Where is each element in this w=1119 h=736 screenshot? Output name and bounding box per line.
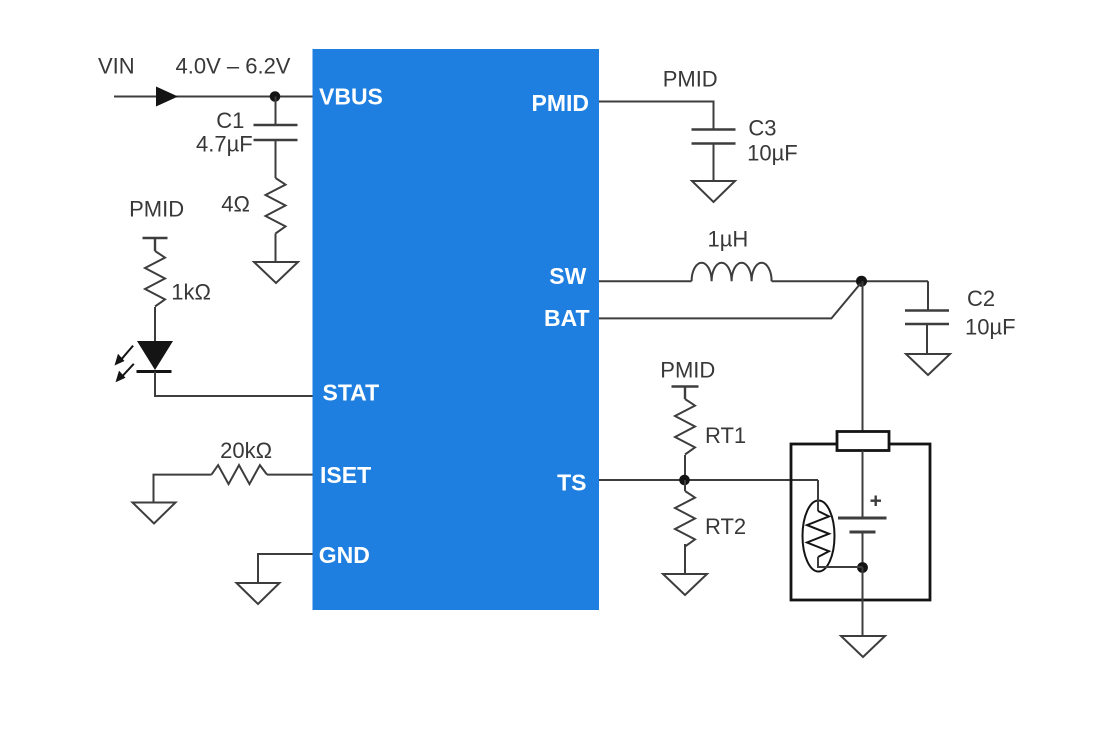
ground under 20k [133,503,176,524]
capacitor C1 [254,125,298,140]
wire thermistor to bottom node [818,557,863,567]
resistor 4ohm [266,178,286,234]
thermistor zigzag [807,511,829,557]
wire C2 to ground [926,324,928,354]
node battery bottom junction dot [857,562,868,573]
resistor RT1 [675,399,695,455]
LED emission arrow 1 [115,346,134,366]
ground under 4ohm [254,262,298,283]
LED D1 [137,341,173,370]
svg-text:VIN: VIN [98,54,135,79]
wire C3 to ground [713,144,715,182]
svg-text:SW: SW [549,263,586,289]
LED cathode bar [137,370,172,373]
ground under RT2 [663,574,707,595]
svg-text:VBUS: VBUS [319,84,383,110]
IC U1 battery charger body [313,49,600,610]
wire battery to bottom node [862,532,864,568]
svg-text:4.0V – 6.2V: 4.0V – 6.2V [176,54,291,79]
capacitor C2 [905,311,949,325]
svg-text:10µF: 10µF [747,141,798,166]
PMID terminal stub [143,238,168,251]
wire fuse to battery plus [862,451,864,519]
thermistor lead down [817,480,819,511]
resistor RT2 [675,491,695,547]
resistor R 1k [145,251,165,307]
svg-text:BAT: BAT [544,305,590,331]
ground under C3 [692,181,735,202]
svg-text:C1: C1 [216,108,244,133]
battery BT1 positive plate [838,517,887,520]
wire LED to STAT [155,372,313,397]
svg-text:10µF: 10µF [965,315,1016,340]
svg-text:4Ω: 4Ω [221,192,250,217]
svg-text:PMID: PMID [660,358,715,383]
svg-text:20kΩ: 20kΩ [220,438,272,463]
svg-text:TS: TS [557,470,586,496]
ground under C2 [906,354,950,375]
wire PMID pin to C3 [599,102,714,130]
svg-text:STAT: STAT [323,380,380,406]
node TS junction dot [679,475,690,486]
node VBUS junction dot [270,91,281,102]
battery BT1 negative plate [850,531,876,534]
wire pack to ground [862,568,864,637]
wire junction to fuse [862,281,864,431]
PMID terminal stub RT1 [672,387,699,400]
thermistor body ellipse [803,501,835,572]
svg-text:C3: C3 [748,116,776,141]
wire BAT pin [599,284,861,319]
wire RT2 to ground [684,544,686,574]
svg-text:RT2: RT2 [705,514,746,539]
capacitor C3 [692,130,736,144]
wire 20k to ground [154,475,212,503]
svg-text:4.7µF: 4.7µF [196,132,253,157]
wire C1 to resistor [275,140,277,178]
wire VBUS node to C1 [275,97,277,126]
wire resistor to ground [275,234,277,263]
resistor 20k [212,465,268,484]
node SW-BAT junction dot [856,276,867,287]
svg-text:PMID: PMID [663,67,718,92]
battery pack box [791,444,930,600]
wire VIN to VBUS [114,96,313,98]
svg-text:RT1: RT1 [705,423,746,448]
wire TS pin to thermistor [599,479,818,481]
wire SW to inductor [599,280,692,282]
wire GND pin [258,554,313,583]
wire TS node to RT2 [684,480,686,491]
svg-text:ISET: ISET [320,462,371,488]
wire RT1 to TS node [684,455,686,480]
wire down to C2 [927,281,929,310]
input arrow head [156,87,178,107]
fuse / PTC element [837,432,889,451]
svg-text:1µH: 1µH [708,227,749,252]
svg-text:PMID: PMID [129,197,184,222]
svg-text:GND: GND [319,542,370,568]
wire inductor to C2 [772,280,928,282]
LED emission arrow 2 [116,364,134,383]
wire ISET to resistor [267,474,313,476]
svg-text:C2: C2 [967,286,995,311]
ground under GND pin [237,583,280,604]
svg-text:PMID: PMID [532,90,590,116]
inductor L1 1uH [692,263,772,282]
svg-text:1kΩ: 1kΩ [171,279,211,304]
wire 1k to LED [154,307,156,341]
battery plus sign [871,496,882,507]
ground under battery pack [841,636,885,657]
